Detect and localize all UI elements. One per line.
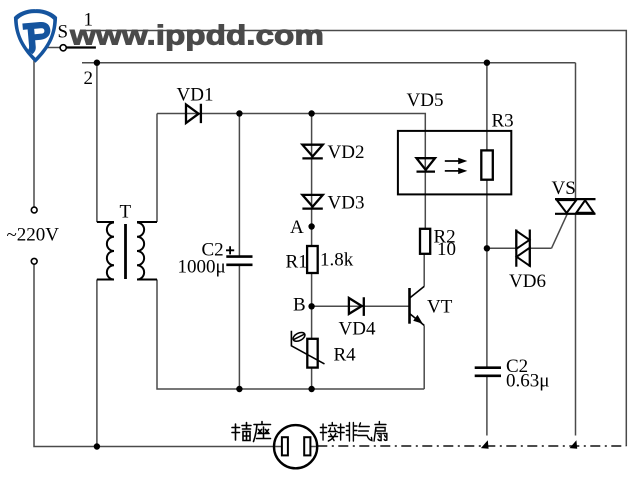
wire VT emitter vertical to mid rail bbox=[423, 325, 425, 389]
wire socket internal leads bbox=[274, 446, 317, 448]
transistor VT emitter bbox=[410, 314, 424, 326]
wire left source lead from switch common bbox=[34, 48, 60, 208]
arrowhead opto lower bbox=[458, 168, 467, 174]
wire R3 to VD6 node bbox=[486, 180, 488, 249]
junction dot C2 mid rail bbox=[236, 386, 242, 392]
svg-text:10: 10 bbox=[437, 239, 456, 260]
diac VD6 lower triangle bbox=[517, 248, 530, 266]
svg-text:0.63μ: 0.63μ bbox=[506, 371, 549, 392]
hanzi qi of jiepaiqishan bbox=[358, 423, 372, 441]
connection arrow C2b branch bbox=[481, 440, 489, 449]
resistor R4 thermistor bbox=[307, 339, 317, 368]
label theta bbox=[292, 331, 307, 343]
optocoupler light arrow lower bbox=[445, 170, 460, 172]
resistor R1 bbox=[307, 246, 318, 273]
socket right pin bbox=[304, 437, 310, 455]
junction dot rail2 R3 bbox=[484, 60, 490, 66]
triac VS bars bbox=[555, 199, 596, 214]
emitter arrowhead bbox=[413, 315, 423, 324]
junction dot VD1 C2 bbox=[236, 110, 242, 116]
transistor VT bar bbox=[408, 288, 411, 324]
optocoupler LED bbox=[417, 158, 436, 171]
transformer T core bbox=[124, 224, 127, 279]
wire C2 bottom branch bbox=[238, 266, 240, 390]
svg-text:VD5: VD5 bbox=[407, 90, 444, 111]
junction dot VD2 branch bbox=[308, 110, 314, 116]
wire transformer primary bottom lead bbox=[96, 280, 98, 447]
node A dot bbox=[308, 223, 314, 229]
hanzi zuo of chazuo bbox=[254, 422, 271, 442]
svg-text:VS: VS bbox=[552, 178, 576, 199]
hanzi jie of jiepaiqishan bbox=[320, 423, 337, 442]
hanzi cha of chazuo bbox=[232, 423, 251, 441]
svg-text:T: T bbox=[120, 202, 132, 223]
triac VS right triangle bbox=[576, 200, 594, 213]
wire VT collector vertical to R2 bbox=[423, 254, 425, 287]
diode VD3 bbox=[302, 195, 322, 209]
switch S terminal circle bbox=[60, 45, 66, 51]
wire transformer primary top lead bbox=[96, 63, 98, 222]
wire R1 to node B to R4 bbox=[311, 273, 313, 339]
svg-text:S: S bbox=[58, 22, 69, 43]
svg-text:1000μ: 1000μ bbox=[178, 257, 226, 278]
svg-text:www.ippdd.com: www.ippdd.com bbox=[69, 20, 324, 51]
wire triac branch upper bbox=[575, 63, 577, 199]
svg-text:A: A bbox=[290, 217, 304, 238]
diode VD1 bbox=[186, 104, 201, 123]
diac VD6 bars bbox=[516, 230, 530, 267]
socket circle bbox=[274, 425, 317, 468]
transistor VT collector bbox=[410, 286, 424, 297]
wire C2b bottom to dashed line bbox=[486, 376, 488, 436]
svg-text:R1: R1 bbox=[286, 252, 308, 273]
capacitor C2b 0.63u plates bbox=[475, 368, 501, 376]
wire triac branch lower to dashed line bbox=[575, 214, 577, 436]
wire transformer secondary top lead bbox=[156, 114, 158, 223]
diac VD6 upper triangle bbox=[516, 231, 529, 249]
svg-text:~220V: ~220V bbox=[7, 225, 60, 246]
diode VD2 bbox=[302, 145, 322, 159]
svg-text:1: 1 bbox=[84, 10, 94, 31]
svg-text:VT: VT bbox=[427, 297, 453, 318]
resistor R2 bbox=[420, 229, 430, 254]
wire VD6 node down to C2b bbox=[486, 248, 488, 367]
wire transformer secondary bottom lead and mid rail bbox=[157, 280, 424, 390]
wire R3 branch from rail2 into box bbox=[486, 63, 488, 151]
svg-text:VD4: VD4 bbox=[339, 319, 376, 340]
svg-text:1.8k: 1.8k bbox=[320, 250, 354, 271]
wire R4 bottom to mid rail bbox=[311, 368, 313, 389]
wire diac right to gate bend bbox=[530, 247, 552, 249]
svg-text:VD3: VD3 bbox=[328, 193, 365, 214]
junction dot R4 mid rail bbox=[308, 386, 314, 392]
diode VD4 bbox=[349, 297, 364, 316]
svg-text:R4: R4 bbox=[334, 345, 357, 366]
connection arrow triac branch bbox=[570, 440, 578, 449]
source terminal upper bbox=[31, 207, 37, 213]
svg-text:B: B bbox=[293, 295, 306, 316]
wire VD2 VD3 branch bbox=[311, 114, 313, 247]
junction dot bottom rail bbox=[94, 443, 100, 449]
wire VD1 row to opto LED bbox=[157, 114, 425, 132]
svg-text:2: 2 bbox=[84, 68, 94, 89]
wire left source bottom lead to bottom rail bbox=[34, 264, 274, 446]
logo shield bbox=[14, 9, 57, 63]
optocoupler light arrow upper bbox=[445, 160, 460, 162]
capacitor C2 1000u plates bbox=[226, 257, 252, 265]
resistor R3 bbox=[481, 150, 493, 179]
wire rail2 bbox=[82, 62, 576, 64]
svg-text:VD1: VD1 bbox=[177, 85, 214, 106]
wire VD6 node to diac left bbox=[487, 247, 516, 249]
node B dot bbox=[308, 303, 314, 309]
hanzi pai of jiepaiqishan bbox=[338, 423, 357, 442]
hanzi shan of jiepaiqishan bbox=[374, 422, 387, 442]
svg-text:VD6: VD6 bbox=[509, 271, 546, 292]
arrowhead opto upper bbox=[458, 158, 467, 164]
wire node B through VD4 to VT base bbox=[312, 305, 410, 307]
thermistor diagonal bbox=[291, 331, 324, 364]
wire line1 top rail and right edge bbox=[80, 31, 626, 447]
wire C2 top branch bbox=[238, 114, 240, 257]
junction dot VD6 node bbox=[484, 245, 490, 251]
svg-text:R3: R3 bbox=[492, 111, 514, 132]
socket left pin bbox=[282, 437, 288, 455]
source terminal lower bbox=[31, 258, 37, 264]
transformer T secondary winding bbox=[137, 222, 157, 280]
wire R2 top to opto box bottom bbox=[424, 194, 426, 229]
capacitor C2 plus sign bbox=[226, 246, 234, 254]
svg-text:VD2: VD2 bbox=[328, 142, 365, 163]
wire dashed fan line bbox=[317, 445, 626, 447]
switch S arm bbox=[66, 46, 96, 48]
transformer T primary winding bbox=[97, 222, 114, 280]
wire triac gate diagonal bbox=[552, 214, 568, 249]
junction dot rail2 transformer bbox=[94, 60, 100, 66]
optocoupler VD5 box bbox=[398, 131, 511, 195]
wire opto LED lead inside box bbox=[424, 131, 426, 194]
triac VS left triangle bbox=[557, 200, 576, 213]
